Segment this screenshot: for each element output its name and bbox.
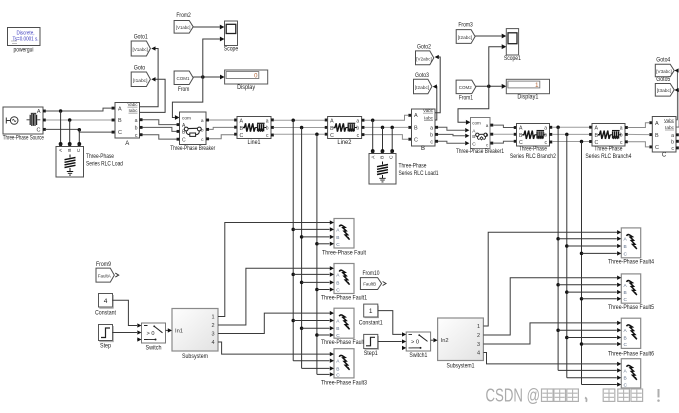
wire c Branch2 to Branch4 [552, 141, 590, 143]
svg-text:Three-Phase: Three-Phase [519, 147, 548, 153]
wire Subsystem out1 to fault ctrl [218, 220, 334, 316]
wire fault feed b row3 [302, 366, 334, 370]
wire fault feed right b row1 [565, 290, 621, 294]
junction b to fault column [300, 126, 304, 130]
svg-text:Display1: Display1 [517, 95, 539, 101]
svg-text:From2: From2 [176, 13, 191, 19]
svg-text:B: B [595, 133, 599, 139]
scope block Scope [224, 21, 239, 53]
svg-text:2: 2 [477, 333, 480, 339]
svg-text:From3: From3 [458, 23, 473, 29]
from tag From9 [96, 262, 119, 282]
svg-text:a: a [671, 133, 674, 139]
svg-text:a: a [266, 118, 269, 124]
wire Subsystem1 out3 to fault6 ctrl [483, 321, 621, 344]
svg-text:B: B [655, 133, 659, 139]
wire b meas A to breaker B [143, 127, 177, 131]
svg-text:B: B [336, 280, 339, 286]
svg-text:COM2: COM2 [459, 85, 472, 91]
svg-text:Goto2: Goto2 [417, 44, 432, 50]
wire Subsystem out4 to fault3 ctrl [218, 342, 334, 356]
three-phase series RLC load [56, 144, 123, 177]
svg-text:C: C [182, 137, 186, 143]
svg-text:[V1abc]: [V1abc] [132, 47, 148, 52]
svg-text:C: C [595, 140, 599, 146]
svg-text:In2: In2 [441, 338, 449, 344]
junction a to fault column [291, 118, 295, 122]
svg-text:Three-Phase Fault5: Three-Phase Fault5 [608, 305, 655, 311]
wire phase c drop right [581, 142, 583, 385]
svg-text:[V2abc]: [V2abc] [416, 56, 432, 61]
svg-text:Series RLC Branch4: Series RLC Branch4 [585, 154, 632, 160]
switch block Switch1 [406, 332, 430, 359]
goto tag Goto4 [655, 57, 674, 76]
wire a breaker1 to Branch2 [493, 125, 514, 127]
wire fault feed right a row3 [558, 368, 621, 372]
svg-text:C: C [519, 140, 523, 146]
wire c meas A to breaker C [143, 135, 177, 139]
svg-text:B: B [624, 336, 627, 342]
wire phase b drop right [566, 134, 568, 377]
wire c breaker1 to Branch2 [493, 141, 514, 143]
wire fault feed right a row1 [556, 283, 621, 287]
svg-text:[I2abc]: [I2abc] [415, 85, 430, 90]
svg-text:A: A [655, 121, 659, 127]
svg-text:FaultB: FaultB [363, 282, 376, 287]
svg-text:[I2abc]: [I2abc] [458, 35, 473, 40]
three-phase fault block Three-Phase Fault3 [321, 349, 368, 387]
svg-text:B: B [330, 126, 334, 132]
svg-text:a: a [356, 118, 359, 124]
three-phase fault block Three-Phase Fault2 [321, 308, 368, 346]
wire fault feed right a row2 [556, 328, 621, 332]
svg-text:C: C [472, 141, 476, 147]
svg-text:b: b [430, 133, 433, 139]
svg-text:FaultA: FaultA [98, 274, 112, 279]
svg-text:1: 1 [369, 308, 373, 315]
svg-text:From1: From1 [459, 95, 474, 101]
svg-text:Series RLC Load1: Series RLC Load1 [399, 171, 440, 177]
wire c Branch4 to meas C [628, 142, 649, 147]
svg-text:[V3abc]: [V3abc] [656, 69, 672, 74]
svg-text:COM1: COM1 [177, 76, 190, 82]
wire c meas B to breaker1 C [438, 141, 469, 145]
svg-text:Goto4: Goto4 [656, 57, 671, 63]
svg-text:CSDN @: CSDN @ [486, 386, 541, 406]
wire From2 to Scope [193, 25, 224, 30]
wire COM2 to Display1 [476, 84, 507, 89]
goto tag Goto2 [416, 44, 434, 64]
svg-text:C: C [336, 372, 340, 378]
svg-text:From10: From10 [363, 271, 381, 277]
svg-text:Goto1: Goto1 [134, 35, 149, 41]
wire c Line1 to Line2 [274, 133, 326, 135]
svg-text:com: com [182, 116, 191, 121]
wire Vabc to Goto1 [140, 46, 158, 106]
svg-text:Three-Phase Fault1: Three-Phase Fault1 [321, 295, 368, 301]
wire COM2 to Scope1 input 2 [489, 44, 507, 86]
wire c breaker to Line1 C [209, 135, 234, 139]
powergui block [8, 28, 41, 54]
from tag From (COM1) [174, 71, 193, 93]
svg-text:Three-Phase: Three-Phase [399, 163, 428, 169]
from tag From1 (COM2) [456, 80, 476, 101]
goto tag Goto [131, 66, 150, 87]
svg-text:C: C [624, 297, 628, 303]
three-phase breaker [170, 112, 215, 152]
svg-text:a: a [620, 125, 623, 131]
svg-text:Three-Phase Fault3: Three-Phase Fault3 [321, 380, 368, 386]
from tag From2 [174, 13, 193, 33]
wire fault feed right c row2 [580, 342, 622, 346]
wire fault feed right b row2 [565, 335, 621, 339]
svg-text:> 0: > 0 [411, 340, 419, 346]
junction load1 B [381, 126, 385, 153]
wire Step1 to Switch1 [378, 339, 406, 343]
svg-text:b: b [356, 126, 359, 132]
svg-text:powergui: powergui [14, 48, 34, 54]
junction a to fault column right [556, 126, 560, 130]
svg-text:B: B [336, 326, 339, 332]
svg-text:a: a [201, 119, 204, 124]
scope block Scope1 [504, 29, 522, 62]
wire phase c drop left [316, 134, 318, 374]
svg-text:A: A [37, 109, 41, 115]
svg-text:4: 4 [477, 351, 480, 357]
svg-text:Three-Phase Fault: Three-Phase Fault [322, 250, 366, 256]
wire COM1 to Scope input 2 [203, 37, 225, 77]
svg-text:Ts=0.0001 s.: Ts=0.0001 s. [13, 37, 39, 43]
svg-text:B: B [336, 366, 339, 372]
wire Switch1 to Subsystem1 [431, 338, 438, 342]
wire fault feed a row0 [291, 227, 334, 231]
three-phase fault block Three-Phase Fault6 [608, 318, 655, 357]
wire Iabc B to Goto3 [433, 84, 437, 120]
wire Subsystem out2 to fault1 ctrl [218, 266, 334, 325]
wire b Line2 to meas B [364, 126, 408, 128]
junction node A to load [59, 109, 63, 146]
wire Constant to Switch [113, 300, 142, 327]
goto tag Goto5 [655, 77, 674, 96]
svg-text:Display: Display [237, 85, 255, 91]
svg-text:b: b [671, 139, 674, 145]
svg-text:c: c [135, 133, 138, 139]
svg-text:Goto3: Goto3 [415, 73, 430, 79]
svg-text:B: B [380, 156, 386, 159]
three-phase series RLC branch4 [585, 124, 632, 161]
wire From3 to Scope1 [475, 34, 506, 39]
step block Step [99, 325, 114, 350]
svg-text:C: C [330, 133, 334, 139]
svg-text:[I3abc]: [I3abc] [657, 88, 672, 93]
svg-text:Three-Phase Breaker1: Three-Phase Breaker1 [456, 149, 505, 155]
svg-text:Subsystem: Subsystem [182, 354, 208, 360]
line block Line2 [325, 117, 365, 146]
svg-text:Three-Phase: Three-Phase [86, 154, 115, 160]
wire phase C source to meas A [46, 129, 112, 132]
junction COM1 signal [201, 75, 205, 79]
line block Line1 [234, 117, 274, 146]
wire COM1 to breaker com [172, 77, 202, 120]
svg-text:a: a [430, 125, 433, 131]
wire phase a drop right [557, 127, 559, 370]
svg-text:A: A [118, 106, 122, 112]
wire a meas A to breaker A [143, 120, 177, 125]
wire fault feed right a row0 [556, 237, 621, 241]
svg-text:2: 2 [211, 323, 214, 329]
svg-text:A: A [414, 113, 418, 119]
wire phase B source to meas A [46, 119, 112, 121]
svg-text:C: C [624, 383, 628, 389]
svg-text:Three-Phase: Three-Phase [594, 147, 623, 153]
wire Subsystem out3 to fault2 ctrl [218, 311, 334, 334]
watermark text [486, 386, 660, 406]
svg-text:> 0: > 0 [147, 331, 155, 337]
goto tag Goto3 [414, 73, 432, 94]
svg-text:Goto: Goto [134, 66, 146, 72]
svg-text:B: B [421, 146, 425, 152]
svg-text:[V1abc]: [V1abc] [176, 25, 191, 30]
wire b Branch2 to Branch4 [552, 133, 590, 135]
svg-text:B: B [118, 118, 122, 124]
goto tag Goto1 [131, 35, 150, 56]
wire fault feed c row2 [315, 333, 334, 337]
svg-text:B: B [624, 244, 627, 250]
three-phase series RLC branch2 [510, 124, 557, 161]
switch block Switch [142, 323, 166, 352]
three-phase V-I measurement B [408, 108, 438, 152]
display block Display1 [506, 79, 549, 100]
wire COM2 to breaker1 com [458, 86, 489, 124]
wire Iabc to Goto [140, 77, 165, 112]
svg-text:Series RLC Branch2: Series RLC Branch2 [510, 154, 557, 160]
svg-text:Scope1: Scope1 [504, 56, 522, 62]
display block Display [225, 70, 268, 91]
svg-text:Line2: Line2 [337, 140, 352, 146]
wire b meas B to breaker1 B [438, 134, 469, 138]
svg-text:com: com [472, 120, 481, 125]
wire fault feed c row3 [317, 372, 334, 376]
stub Switch input 3 [137, 337, 141, 341]
svg-text:B: B [519, 133, 523, 139]
svg-text:3: 3 [477, 342, 480, 348]
wire COM1 to Display [193, 75, 224, 80]
junction node C to load [77, 128, 81, 146]
junction load1 A [371, 118, 375, 152]
svg-text:C: C [414, 137, 418, 143]
wire fault feed right c row0 [580, 251, 622, 255]
junction c to fault column right [580, 140, 584, 144]
svg-text:b: b [544, 133, 547, 139]
wire fault feed b row0 [300, 235, 334, 239]
svg-text:1: 1 [477, 324, 480, 330]
svg-text:C: C [389, 155, 395, 159]
svg-text:Switch1: Switch1 [409, 353, 428, 359]
svg-text:From: From [178, 87, 190, 93]
wire fault feed a row3 [293, 359, 334, 363]
svg-text:C: C [37, 127, 41, 133]
wire fault feed right b row0 [565, 244, 621, 248]
svg-text:C: C [655, 145, 659, 151]
svg-text:4: 4 [211, 340, 214, 346]
svg-text:B: B [472, 134, 475, 140]
wire c Line2 to meas B [364, 135, 408, 140]
svg-text:B: B [624, 290, 627, 296]
three-phase V-I measurement C [649, 117, 679, 159]
wire fault feed a row2 [291, 318, 334, 322]
wire Subsystem1 out2 to fault5 ctrl [483, 276, 621, 335]
svg-text:c: c [430, 139, 433, 145]
svg-text:Three-Phase Fault6: Three-Phase Fault6 [608, 352, 655, 358]
three-phase source [3, 107, 46, 142]
svg-text:B: B [414, 126, 418, 132]
svg-text:Three-Phase Fault2: Three-Phase Fault2 [321, 340, 368, 346]
wire Constant1 to Switch1 [378, 311, 406, 337]
wire Subsystem1 out4 to fault7 ctrl [483, 353, 621, 367]
junction node B to load [68, 118, 72, 146]
constant block Constant [95, 294, 116, 317]
three-phase fault block Three-Phase Fault1 [321, 264, 368, 302]
wire Subsystem1 out1 to fault4 ctrl [483, 230, 621, 326]
svg-text:Three-Phase Source: Three-Phase Source [3, 136, 44, 142]
svg-text:4: 4 [104, 298, 108, 305]
from tag From10 [360, 271, 386, 289]
svg-text:A: A [595, 126, 599, 132]
svg-text:b: b [135, 126, 138, 132]
svg-text:C: C [240, 133, 244, 139]
wire fault feed a row1 [291, 272, 334, 276]
svg-text:C: C [336, 288, 340, 294]
svg-text:c: c [671, 146, 674, 152]
wire fault feed right c row1 [580, 297, 622, 301]
svg-text:b: b [266, 126, 269, 132]
svg-text:C: C [662, 153, 667, 159]
svg-text:Three-Phase Fault4: Three-Phase Fault4 [608, 260, 655, 266]
svg-text:A: A [125, 141, 129, 147]
wire Step to Switch [113, 330, 142, 334]
three-phase fault block Three-Phase Fault [322, 219, 366, 257]
junction b to fault column right [565, 133, 569, 137]
three-phase fault block Three-Phase Fault4 [608, 228, 655, 266]
svg-text:B: B [624, 376, 627, 382]
svg-text:Goto5: Goto5 [656, 77, 671, 83]
wire phase A source to meas A [46, 108, 112, 111]
wire b Branch4 to meas C [628, 133, 649, 135]
wire a Line1 to Line2 [274, 119, 326, 121]
svg-text:C: C [624, 251, 628, 257]
junction load1 C [390, 126, 394, 153]
three-phase breaker1 [456, 118, 505, 155]
svg-text:From9: From9 [96, 262, 112, 268]
svg-text:Constant: Constant [95, 310, 116, 316]
svg-text:Step: Step [100, 343, 112, 349]
svg-text:C: C [624, 342, 628, 348]
svg-text:Series RLC Load: Series RLC Load [86, 162, 123, 168]
wire fault feed right c row3 [582, 382, 622, 386]
svg-text:Scope: Scope [224, 47, 239, 53]
svg-text:Switch: Switch [146, 346, 162, 352]
wire a Branch4 to meas C [628, 123, 649, 128]
svg-text:C: C [336, 333, 340, 339]
svg-text:B: B [67, 149, 73, 152]
wire fault feed b row1 [300, 280, 334, 284]
subsystem block Subsystem [172, 309, 218, 361]
wire Vabc B to Goto2 [435, 55, 441, 113]
svg-text:3: 3 [211, 332, 214, 338]
wire Vabc C to Goto4 [674, 68, 678, 119]
wire fault feed c row0 [315, 242, 334, 246]
svg-text:In1: In1 [175, 328, 183, 334]
junction COM2 signal [487, 85, 491, 89]
svg-text:Constant1: Constant1 [359, 320, 384, 326]
svg-text:C: C [336, 242, 340, 248]
wire b breaker1 to Branch2 [493, 133, 514, 135]
wire phase b drop left [301, 128, 303, 369]
wire fault feed right b row3 [567, 376, 622, 380]
svg-text:a: a [135, 118, 138, 124]
wire Iabc C to Goto5 [674, 88, 679, 127]
subsystem block Subsystem1 [438, 318, 484, 370]
svg-text:Line1: Line1 [248, 140, 262, 146]
svg-text:[I1abc]: [I1abc] [133, 78, 148, 83]
svg-text:b: b [620, 133, 623, 139]
svg-text:a: a [486, 123, 489, 128]
wire b Line1 to Line2 [274, 127, 326, 129]
wire a meas B to breaker1 A [438, 127, 469, 132]
three-phase series RLC load1 [369, 151, 439, 184]
three-phase fault block Three-Phase Fault5 [608, 274, 655, 311]
wire fault feed b row2 [300, 326, 334, 330]
step block Step1 [364, 334, 379, 357]
stub Switch1 input 3 [402, 346, 406, 350]
svg-text:A: A [330, 119, 334, 125]
wire a Line2 to meas B [364, 115, 408, 120]
svg-text:A: A [240, 119, 244, 125]
junction c to fault column [315, 133, 319, 137]
constant block Constant1 [359, 304, 384, 326]
svg-text:C: C [118, 130, 122, 136]
three-phase V-I measurement A [112, 102, 143, 147]
three-phase fault block Three-Phase Fault7 [621, 359, 640, 389]
wire phase a drop left [292, 120, 294, 361]
svg-text:B: B [240, 126, 244, 132]
svg-text:Step1: Step1 [364, 351, 379, 357]
from tag From3 [456, 23, 475, 44]
svg-text:C: C [76, 148, 82, 152]
wire a Branch2 to Branch4 [552, 126, 590, 128]
svg-text:A: A [519, 126, 523, 132]
wire Switch to Subsystem [166, 328, 173, 332]
svg-text:B: B [336, 235, 339, 241]
wire b breaker to Line1 B [209, 127, 234, 129]
wire fault feed c row1 [315, 287, 334, 291]
svg-text:a: a [544, 125, 547, 131]
svg-text:1: 1 [211, 315, 214, 321]
svg-text:Subsystem1: Subsystem1 [447, 364, 476, 370]
wire a breaker to Line1 A [209, 119, 234, 121]
svg-text:Three-Phase Breaker: Three-Phase Breaker [170, 146, 215, 152]
